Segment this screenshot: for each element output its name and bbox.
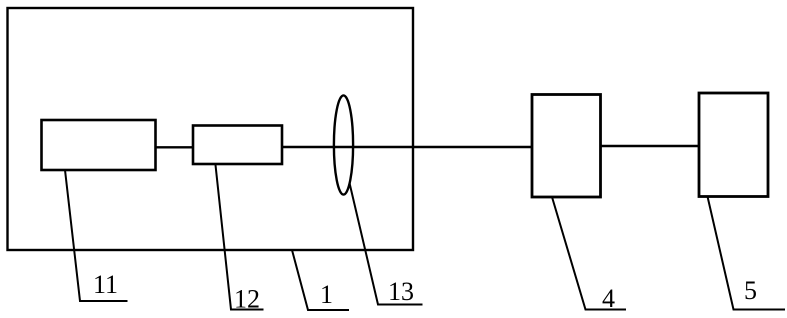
svg-text:13: 13 bbox=[388, 277, 414, 306]
svg-text:11: 11 bbox=[93, 270, 118, 299]
svg-text:4: 4 bbox=[602, 284, 615, 313]
svg-text:1: 1 bbox=[320, 280, 333, 309]
svg-text:12: 12 bbox=[234, 285, 260, 314]
svg-text:5: 5 bbox=[744, 276, 757, 305]
